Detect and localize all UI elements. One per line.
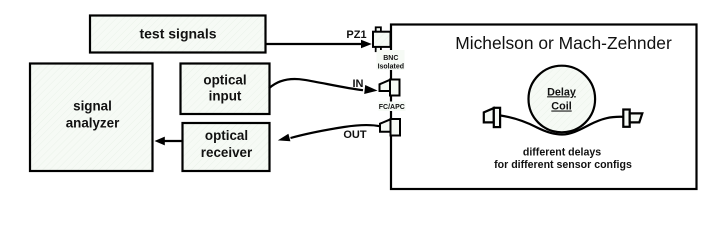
- svg-text:receiver: receiver: [201, 145, 253, 160]
- svg-text:optical: optical: [203, 73, 246, 88]
- svg-text:test signals: test signals: [139, 26, 216, 42]
- svg-text:Delay: Delay: [547, 86, 576, 98]
- connector J2 FC/APC IN (body): [390, 80, 400, 96]
- wire: fiber through delay coil: [501, 116, 624, 135]
- svg-text:IN: IN: [353, 78, 364, 90]
- svg-text:FC/APC: FC/APC: [379, 104, 405, 111]
- wire: curve optical input to IN port: [269, 79, 363, 90]
- wire: arrow optical receiver to signal analyzer: [163, 140, 183, 142]
- svg-text:different delays: different delays: [523, 147, 601, 159]
- svg-text:PZ1: PZ1: [346, 29, 366, 41]
- wire: arrow test signals to PZ1 BNC input: [267, 43, 363, 45]
- connector J5 coil right (wedge): [630, 113, 643, 122]
- connector J3 FC/APC OUT (wedge): [380, 119, 391, 131]
- svg-text:OUT: OUT: [343, 129, 367, 141]
- label: FC/APC: [379, 102, 406, 112]
- svg-text:BNC: BNC: [383, 55, 398, 62]
- label: BNC Isolated: [377, 50, 405, 70]
- svg-text:input: input: [209, 89, 242, 104]
- svg-text:Isolated: Isolated: [378, 64, 404, 71]
- delay coil circle: [529, 66, 596, 133]
- connector J2 FC/APC IN (wedge): [380, 80, 391, 91]
- connector J4 coil left (body): [494, 108, 500, 127]
- wire: curve OUT port to optical receiver: [291, 125, 381, 138]
- connector J3 FC/APC OUT (body): [391, 119, 401, 136]
- svg-text:for different sensor configs: for different sensor configs: [494, 159, 632, 171]
- svg-text:analyzer: analyzer: [66, 116, 120, 131]
- connector J1 BNC (top small square): [376, 27, 381, 32]
- svg-text:optical: optical: [205, 128, 248, 143]
- connector J1 BNC (bottom small square): [376, 46, 381, 51]
- svg-text:signal: signal: [73, 99, 112, 114]
- connector J4 coil left (wedge): [484, 108, 494, 122]
- svg-text:Michelson or Mach-Zehnder: Michelson or Mach-Zehnder: [455, 33, 672, 53]
- box: signal analyzer: [30, 64, 153, 172]
- box U4 Michelson or Mach-Zehnder (main enclosure): [391, 25, 697, 190]
- box: optical input: [181, 64, 270, 115]
- connector J1 BNC (body): [373, 32, 391, 47]
- box: optical receiver: [183, 123, 270, 171]
- connector J5 coil right (body): [623, 110, 629, 127]
- box: test signals: [90, 16, 266, 53]
- svg-text:Coil: Coil: [551, 101, 571, 113]
